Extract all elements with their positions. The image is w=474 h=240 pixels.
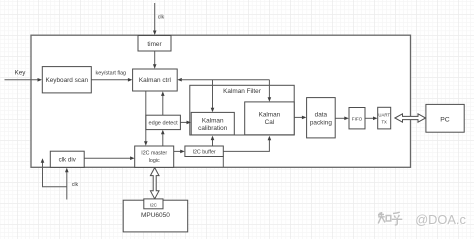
svg-text:FIFO: FIFO	[352, 116, 363, 121]
svg-text:@DOA.c: @DOA.c	[415, 212, 466, 227]
svg-text:key/start flag: key/start flag	[96, 71, 127, 77]
svg-text:Kalman Filter: Kalman Filter	[223, 88, 262, 95]
svg-text:TX: TX	[381, 120, 387, 125]
svg-text:Kalman: Kalman	[259, 112, 281, 119]
svg-text:data: data	[315, 112, 328, 119]
svg-text:clk: clk	[158, 15, 165, 21]
svg-text:Kalman ctrl: Kalman ctrl	[139, 77, 171, 84]
svg-text:Key: Key	[15, 70, 27, 77]
svg-text:MPU6050: MPU6050	[141, 212, 170, 219]
svg-text:PC: PC	[440, 117, 450, 124]
svg-text:Kalman: Kalman	[202, 117, 224, 124]
svg-text:I2C: I2C	[150, 202, 158, 207]
svg-text:clk div: clk div	[59, 157, 77, 164]
svg-text:clk: clk	[72, 182, 79, 188]
svg-text:logic: logic	[149, 158, 160, 164]
svg-text:I2C buffer: I2C buffer	[193, 150, 216, 156]
svg-text:Cal: Cal	[265, 119, 275, 126]
svg-text:edge detect: edge detect	[148, 121, 178, 127]
svg-text:timer: timer	[147, 41, 162, 48]
svg-text:packing: packing	[310, 120, 332, 127]
svg-text:UART: UART	[378, 112, 390, 117]
svg-text:I2C master: I2C master	[141, 151, 167, 157]
svg-text:calibration: calibration	[198, 125, 228, 132]
svg-text:Keyboard scan: Keyboard scan	[45, 77, 88, 84]
